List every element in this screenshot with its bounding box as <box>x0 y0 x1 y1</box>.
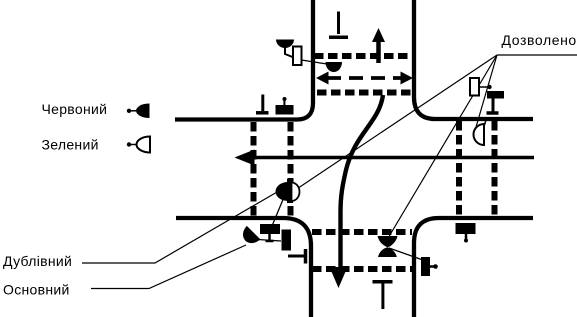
traffic light D red dome pair west road <box>276 182 289 201</box>
wire C1 to C3 <box>479 86 489 88</box>
stop line north 1 <box>314 53 412 59</box>
callout Dozvoleno to D <box>299 55 497 188</box>
traffic light A1 red dome top-left <box>276 40 294 49</box>
callout Dozvoleno to E <box>389 55 497 237</box>
svg-text:Червоний: Червоний <box>42 101 108 117</box>
road edge top-left corner <box>175 0 313 120</box>
traffic light C1 duplicate box top-right (white) <box>470 78 479 96</box>
stop line north 2 <box>317 90 412 96</box>
pole P1 north road <box>337 12 340 35</box>
stop line east 2 <box>492 121 498 216</box>
arrow up north <box>376 40 381 63</box>
stop line south 1 <box>312 229 412 235</box>
svg-text:Дозволено: Дозволено <box>502 32 577 48</box>
traffic light P7 box west road <box>276 105 294 115</box>
traffic light D green dome pair west road <box>292 183 300 202</box>
traffic light B1 dome in north road <box>326 62 343 72</box>
traffic light F3 tilted red dome <box>239 226 261 248</box>
callout Dozvoleno underline <box>497 54 577 56</box>
traffic light P5 box east road <box>456 223 476 234</box>
wire E to E2 <box>389 248 422 260</box>
traffic light E2 box south road <box>421 257 430 276</box>
arrow curved south <box>341 95 384 267</box>
wire D to F1 <box>272 200 283 227</box>
legend green icon <box>127 142 131 146</box>
svg-text:Дублівний: Дублівний <box>3 253 72 269</box>
svg-text:Зелений: Зелений <box>42 137 99 153</box>
arrow left <box>253 156 534 160</box>
traffic light A2 duplicate box (white) <box>293 47 302 66</box>
stop line south 2 <box>312 266 412 272</box>
road edge bottom-left corner <box>176 218 311 317</box>
wire A2 to B1 <box>302 60 331 65</box>
legend red icon <box>127 109 131 113</box>
callout Dozvoleno to C5 <box>474 55 497 134</box>
stop line east 1 <box>456 121 462 216</box>
stop line west 1 <box>251 122 257 216</box>
pole P3 bottom-left <box>288 255 304 258</box>
svg-text:Основний: Основний <box>3 282 70 298</box>
traffic light C3 box (back view) <box>487 91 504 99</box>
pole C4 <box>492 99 495 112</box>
traffic light F2 box bottom-left <box>282 230 292 251</box>
callout Dublivnyi <box>82 188 284 263</box>
pole P4 south road <box>373 280 393 284</box>
callout Osnovnyi <box>91 245 246 289</box>
road edge top-right corner <box>414 0 533 119</box>
stop line west 2 <box>288 122 294 216</box>
arrow double-head dashed <box>327 76 402 80</box>
traffic light C5 green dome right road <box>485 118 487 125</box>
wire F3 to F2 <box>258 240 281 242</box>
traffic light F1 box bottom-left <box>260 224 280 234</box>
traffic light D mast strip <box>287 179 293 203</box>
pole P6 west road <box>261 95 264 112</box>
road edge bottom-right corner <box>414 218 533 317</box>
traffic light E bowtie south road <box>378 236 398 247</box>
